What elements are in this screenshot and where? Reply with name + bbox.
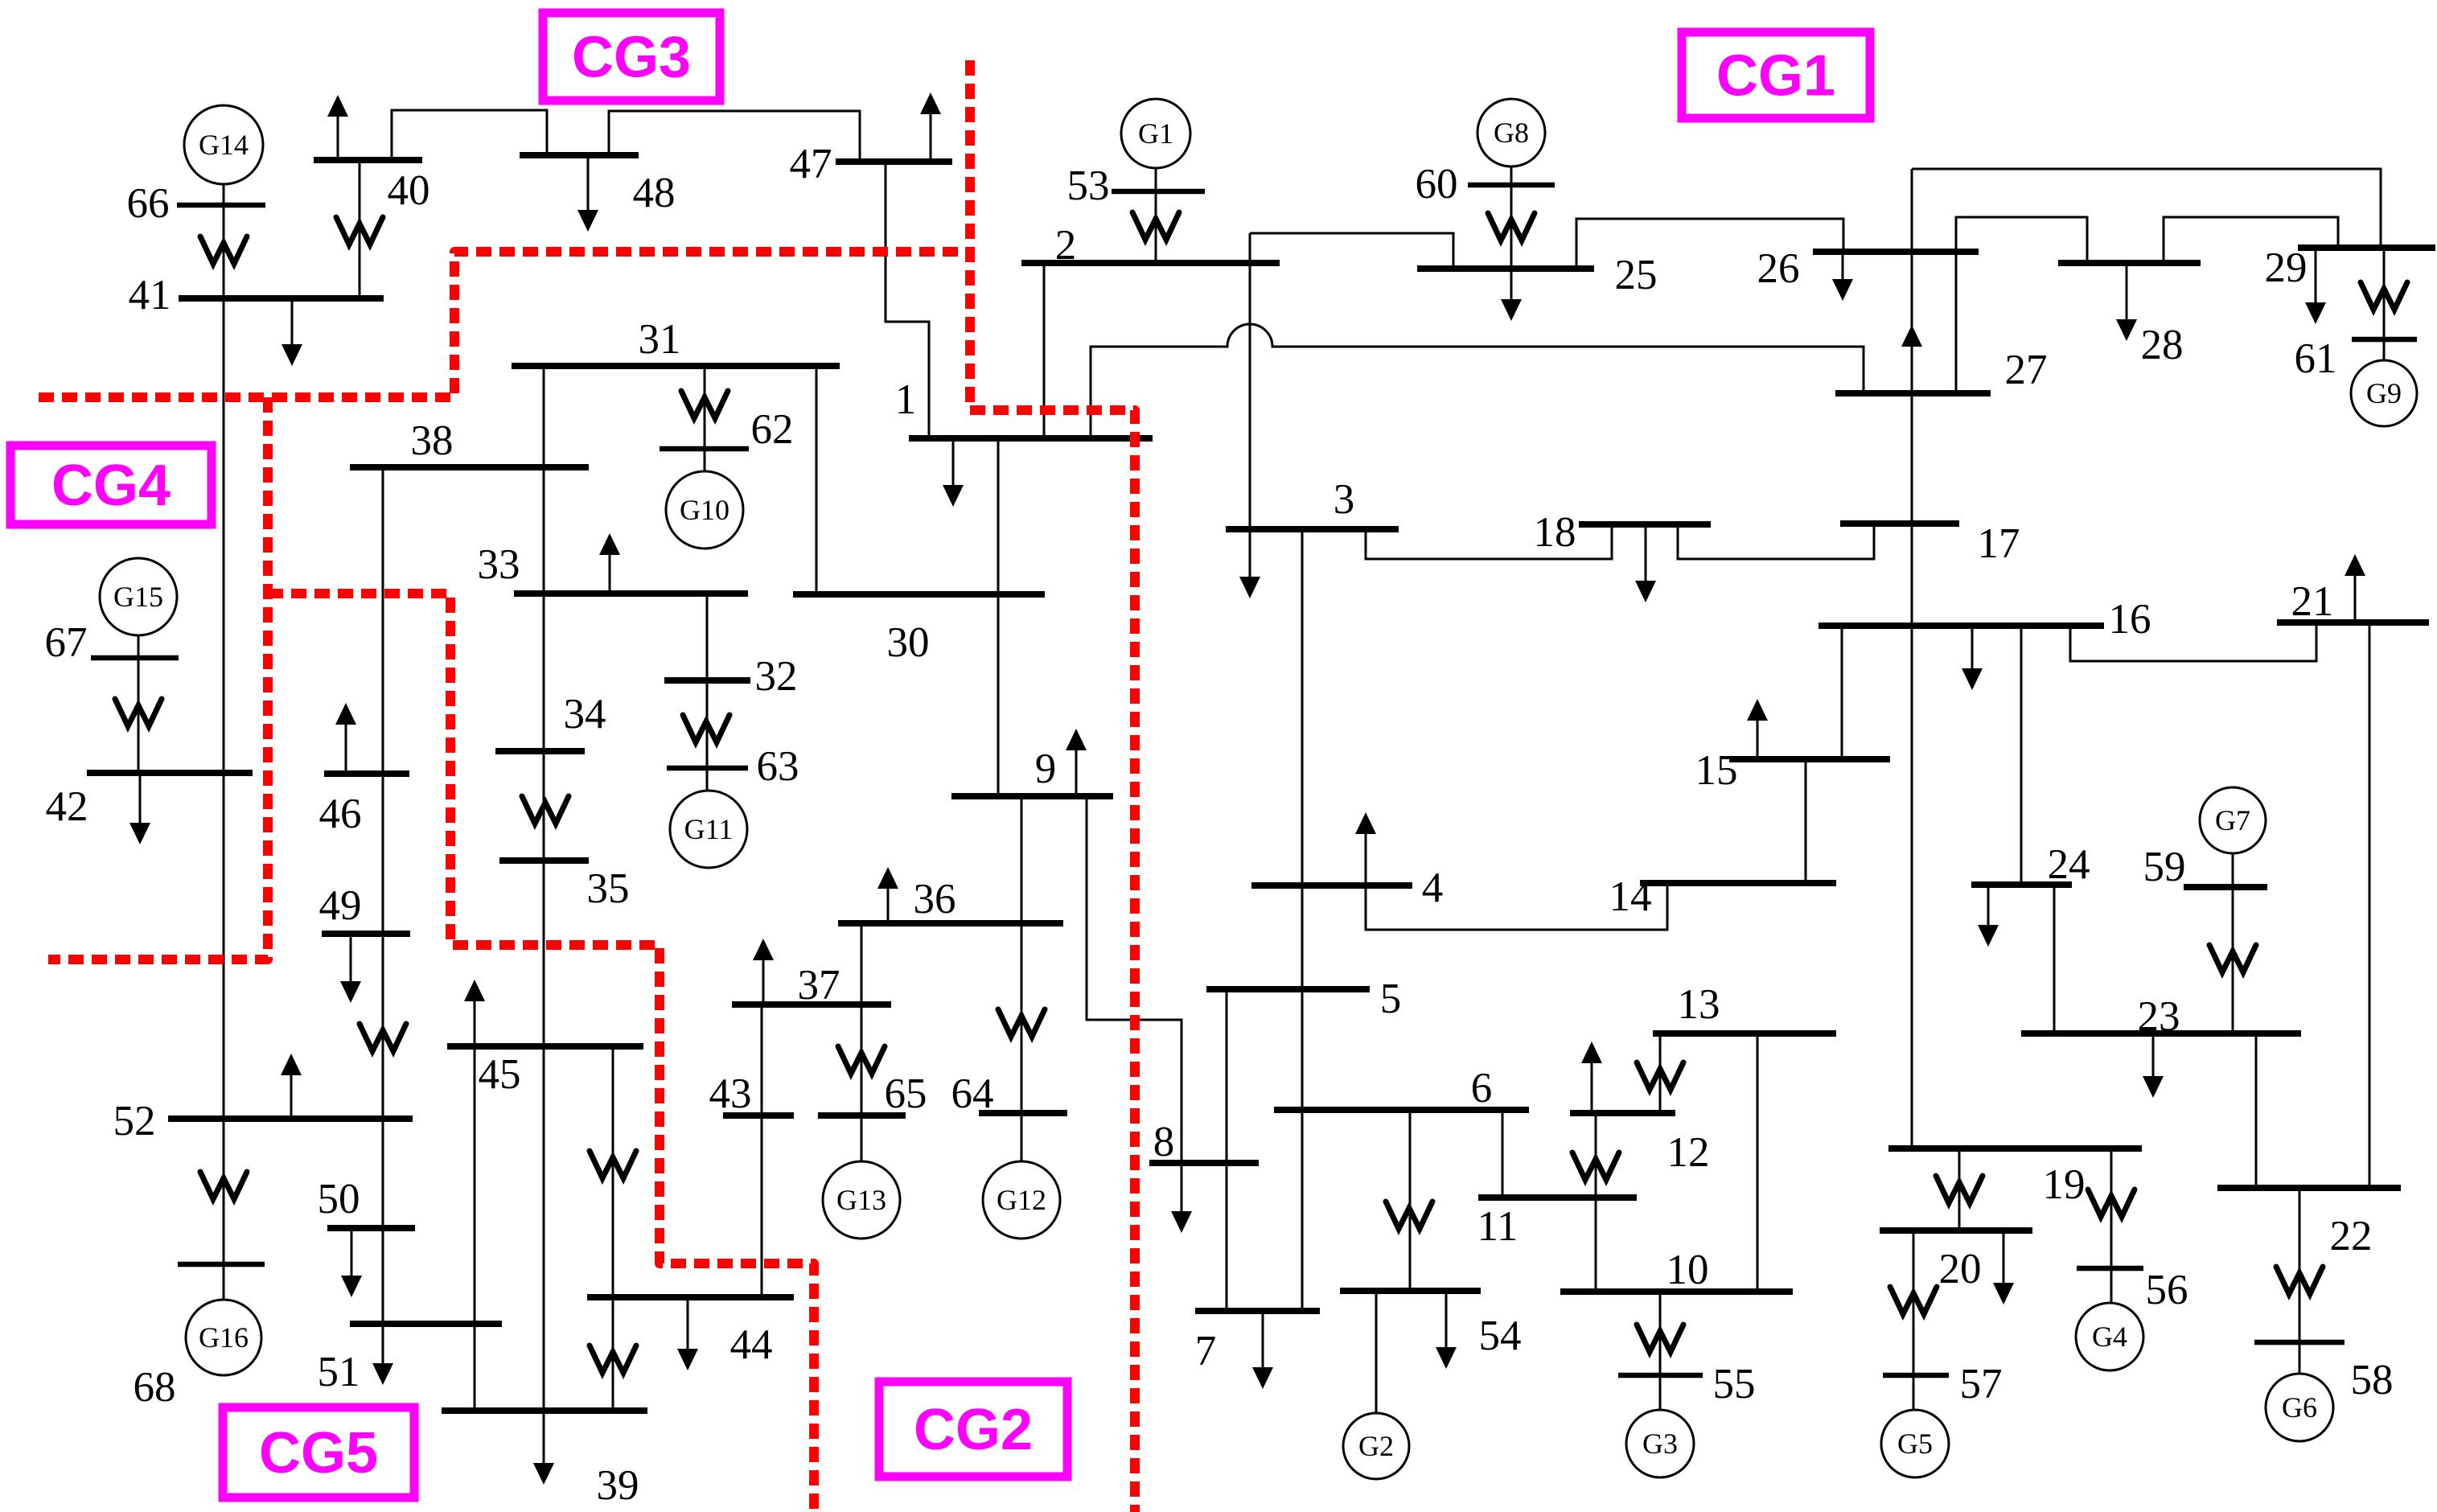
svg-text:CG1: CG1: [1716, 44, 1835, 109]
svg-text:68: 68: [134, 1364, 176, 1411]
svg-text:37: 37: [798, 962, 840, 1009]
svg-text:24: 24: [2048, 841, 2090, 888]
svg-text:49: 49: [319, 882, 362, 929]
svg-text:20: 20: [1939, 1246, 1982, 1292]
svg-text:39: 39: [597, 1462, 639, 1509]
svg-text:61: 61: [2295, 335, 2337, 382]
svg-text:15: 15: [1695, 747, 1738, 794]
svg-text:36: 36: [914, 876, 956, 922]
svg-text:65: 65: [885, 1070, 927, 1117]
svg-text:8: 8: [1153, 1119, 1175, 1165]
svg-text:48: 48: [633, 170, 676, 216]
svg-text:G1: G1: [1138, 117, 1173, 150]
svg-text:CG4: CG4: [51, 454, 171, 518]
svg-text:25: 25: [1615, 252, 1658, 298]
svg-text:14: 14: [1609, 873, 1652, 920]
svg-text:18: 18: [1534, 509, 1576, 556]
svg-text:28: 28: [2141, 322, 2184, 368]
svg-text:1: 1: [895, 376, 917, 423]
svg-text:34: 34: [564, 691, 606, 738]
svg-text:CG2: CG2: [914, 1398, 1033, 1462]
svg-text:G15: G15: [113, 581, 163, 613]
svg-text:G3: G3: [1642, 1428, 1678, 1460]
svg-text:G14: G14: [199, 129, 249, 161]
svg-text:64: 64: [951, 1070, 994, 1117]
svg-text:66: 66: [127, 180, 170, 227]
svg-text:35: 35: [587, 865, 630, 912]
svg-text:22: 22: [2330, 1213, 2373, 1259]
svg-text:23: 23: [2138, 993, 2180, 1040]
svg-text:50: 50: [318, 1176, 360, 1222]
svg-text:G9: G9: [2366, 377, 2402, 409]
svg-text:60: 60: [1416, 161, 1458, 207]
svg-text:10: 10: [1666, 1247, 1709, 1293]
svg-text:47: 47: [790, 141, 832, 187]
svg-text:33: 33: [478, 541, 520, 588]
svg-text:12: 12: [1667, 1129, 1710, 1176]
svg-text:32: 32: [755, 653, 798, 700]
svg-text:44: 44: [730, 1321, 773, 1368]
svg-text:13: 13: [1678, 981, 1720, 1028]
svg-text:9: 9: [1035, 746, 1057, 792]
svg-text:67: 67: [45, 619, 88, 666]
svg-text:51: 51: [318, 1349, 360, 1395]
svg-text:CG3: CG3: [572, 26, 691, 90]
svg-text:G4: G4: [2092, 1321, 2127, 1353]
svg-text:40: 40: [388, 167, 430, 214]
svg-text:7: 7: [1195, 1328, 1217, 1374]
svg-text:G13: G13: [836, 1184, 886, 1216]
svg-text:54: 54: [1479, 1313, 1522, 1359]
svg-text:45: 45: [479, 1051, 521, 1098]
svg-text:G7: G7: [2215, 804, 2250, 836]
svg-text:CG5: CG5: [259, 1421, 378, 1485]
svg-text:16: 16: [2109, 596, 2151, 643]
svg-text:30: 30: [887, 619, 930, 666]
svg-text:G10: G10: [680, 494, 729, 526]
svg-text:G5: G5: [1897, 1428, 1933, 1460]
svg-text:17: 17: [1978, 520, 2020, 567]
svg-text:46: 46: [319, 791, 362, 837]
svg-text:11: 11: [1477, 1203, 1518, 1250]
svg-text:27: 27: [2005, 347, 2048, 393]
svg-text:56: 56: [2146, 1267, 2188, 1313]
svg-text:21: 21: [2291, 578, 2334, 625]
svg-text:55: 55: [1713, 1361, 1756, 1407]
svg-text:43: 43: [709, 1070, 752, 1117]
svg-text:63: 63: [757, 743, 799, 790]
svg-text:G12: G12: [997, 1184, 1046, 1216]
svg-text:2: 2: [1055, 222, 1077, 269]
svg-text:G16: G16: [199, 1321, 249, 1354]
svg-text:G6: G6: [2282, 1391, 2317, 1424]
svg-text:53: 53: [1067, 162, 1110, 209]
svg-text:26: 26: [1757, 245, 1800, 292]
svg-text:58: 58: [2351, 1357, 2394, 1403]
svg-text:3: 3: [1334, 476, 1355, 523]
svg-text:5: 5: [1380, 976, 1402, 1022]
svg-text:59: 59: [2143, 844, 2186, 890]
svg-text:19: 19: [2043, 1161, 2086, 1208]
svg-text:52: 52: [113, 1098, 156, 1144]
svg-text:G8: G8: [1494, 117, 1529, 149]
svg-text:38: 38: [411, 417, 454, 464]
svg-text:29: 29: [2265, 244, 2308, 291]
svg-text:G2: G2: [1358, 1430, 1394, 1462]
svg-text:42: 42: [46, 783, 88, 830]
svg-text:62: 62: [751, 406, 794, 453]
svg-text:6: 6: [1471, 1065, 1493, 1111]
svg-text:31: 31: [639, 316, 681, 363]
svg-text:41: 41: [129, 272, 171, 318]
svg-text:57: 57: [1960, 1361, 2003, 1407]
svg-text:4: 4: [1422, 865, 1444, 911]
svg-text:G11: G11: [684, 813, 734, 845]
